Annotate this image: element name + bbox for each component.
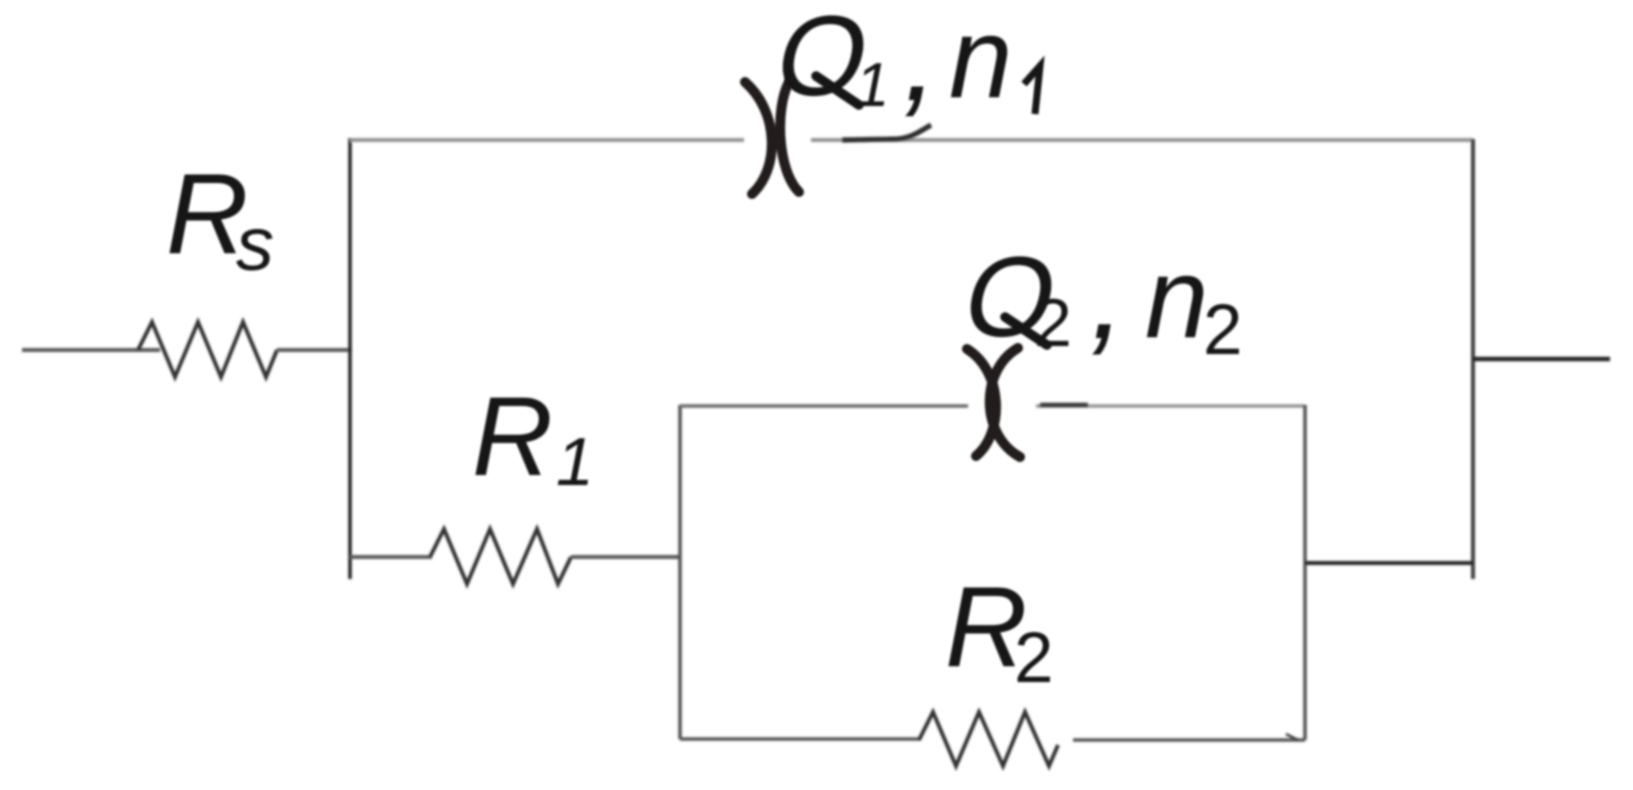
svg-text:2: 2 [1014,619,1054,698]
svg-text:2: 2 [1203,291,1243,370]
svg-text:,: , [903,0,938,127]
svg-text:,: , [1090,223,1126,366]
svg-text:1: 1 [855,51,889,120]
svg-text:1: 1 [556,424,594,500]
svg-text:2: 2 [1034,285,1072,361]
svg-text:n: n [1145,235,1208,362]
svg-text:s: s [236,202,274,287]
svg-text:n: n [949,0,1012,122]
svg-text:R: R [472,374,553,499]
